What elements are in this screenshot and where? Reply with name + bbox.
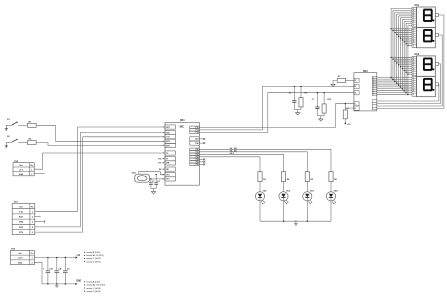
svg-text:TxD: TxD — [19, 211, 23, 213]
svg-text:2: 2 — [32, 217, 33, 219]
wire segment bus d — [377, 14, 412, 84]
svg-text:+12 V: +12 V — [17, 258, 23, 260]
svg-text:g: g — [413, 40, 414, 42]
svg-text:nearby C (HG3): nearby C (HG3) — [86, 287, 101, 290]
LED VD1 — [255, 182, 267, 222]
switch S2 — [6, 136, 21, 143]
DD2 GND pin stub — [345, 108, 354, 110]
wire XS1 pin1 to MCU pin RST — [35, 127, 165, 211]
svg-text:P37: P37 — [158, 163, 161, 165]
svg-text:h: h — [413, 70, 414, 72]
svg-text:nearby D (HG2): nearby D (HG2) — [86, 260, 101, 263]
ground at S1 — [5, 125, 9, 130]
wire P1.2 to DD2 CLK — [199, 93, 354, 133]
svg-text:GND: GND — [345, 108, 350, 110]
svg-text:d: d — [413, 14, 414, 16]
svg-text:RxD: RxD — [19, 217, 24, 219]
svg-text:GND: GND — [19, 222, 24, 224]
svg-text:ST: ST — [354, 80, 356, 82]
wire XS1 pin4 to MCU pin RxD — [35, 133, 165, 227]
wire DIG2 to display B common — [377, 35, 442, 106]
wire P2.3 to LED branch 1 — [199, 157, 260, 172]
wire XS2 pin1 to MCU pin T0 — [34, 153, 165, 169]
capacitor C7 / resistor R10 pull on CLK — [312, 92, 332, 121]
svg-text:DTR: DTR — [19, 227, 24, 229]
capacitor C4 — [52, 257, 62, 285]
svg-text:GND: GND — [19, 174, 24, 176]
switch S1 — [6, 119, 21, 126]
svg-text:b: b — [413, 59, 414, 61]
wire segment bus k — [377, 25, 412, 95]
wire P1.1 to DD2 DIN — [199, 87, 354, 130]
svg-text:CL: CL — [354, 92, 356, 94]
svg-text:Pin: Pin — [31, 253, 34, 255]
svg-text:P26: P26 — [196, 164, 199, 166]
net list +12 — [84, 251, 104, 263]
svg-text:Net: Net — [19, 164, 22, 167]
svg-text:2: 2 — [31, 174, 32, 176]
svg-text:d: d — [413, 83, 414, 85]
svg-text:1: 1 — [163, 127, 164, 129]
svg-text:Pin: Pin — [31, 207, 34, 209]
svg-text:g: g — [413, 68, 414, 70]
wire DIG1 to display A common — [377, 15, 444, 109]
svg-text:nearby A (DD1): nearby A (DD1) — [86, 281, 100, 284]
net list GND — [84, 281, 105, 293]
mcu left pin stub — [159, 168, 165, 171]
IC DD2 display driver — [354, 71, 377, 111]
ground at S2 — [5, 143, 9, 148]
wire segment bus i — [377, 23, 412, 93]
wire segment bus a — [377, 8, 412, 78]
svg-text:T0: T0 — [166, 153, 168, 155]
display HG2 digit C — [412, 56, 438, 76]
resistor R4 — [281, 172, 290, 182]
resistor R8 — [343, 103, 351, 126]
svg-text:Net: Net — [19, 206, 22, 209]
wire segment bus g — [377, 20, 412, 90]
svg-text:2: 2 — [163, 132, 164, 134]
wire segment bus b — [377, 10, 412, 80]
svg-text:5: 5 — [32, 232, 33, 234]
svg-text:T1: T1 — [166, 159, 168, 161]
wire P2.1 to LED branch 3 — [199, 152, 307, 172]
svg-text:Pin: Pin — [30, 165, 33, 167]
wire crystal to XTAL1 — [150, 178, 166, 180]
LED VD2 — [279, 182, 291, 222]
wire XS1 pin3 stub with no-connect — [35, 220, 45, 223]
resistor R5 — [305, 172, 314, 182]
wire XS1 pin2 stub — [35, 216, 41, 218]
svg-text:d: d — [413, 34, 414, 36]
LED VD3 — [303, 182, 315, 222]
svg-text:XT2: XT2 — [166, 175, 169, 177]
port pin stub — [199, 163, 205, 165]
resistor R3 — [258, 172, 267, 182]
node GND flag — [75, 280, 81, 285]
capacitor C6 / resistor R9 pull on DIN — [289, 86, 308, 115]
svg-text:b: b — [413, 79, 414, 81]
port pin stub — [199, 158, 205, 160]
svg-text:nearby A1, B2 (DD2): nearby A1, B2 (DD2) — [86, 284, 105, 287]
wire P1.0 to DD2 LOAD — [199, 104, 354, 128]
wire S2/R2 to MCU pin INT1 — [36, 143, 165, 146]
svg-text:h: h — [413, 42, 414, 44]
IC DD1 microcontroller — [162, 120, 199, 185]
pin ALE stub — [199, 138, 205, 140]
svg-text:3: 3 — [163, 137, 164, 139]
wire +12 rail — [34, 257, 75, 259]
svg-text:1: 1 — [31, 170, 32, 172]
svg-text:DD1: DD1 — [180, 120, 185, 122]
wire DIG4 to display D common — [377, 84, 439, 101]
resistor R6 — [329, 172, 338, 182]
svg-text:1: 1 — [31, 258, 32, 260]
svg-text:Net: Net — [18, 252, 21, 255]
wire GND rail — [34, 262, 75, 284]
connector XS1 — [12, 202, 35, 235]
wire segment bus f — [377, 18, 412, 88]
svg-text:RTS: RTS — [19, 232, 24, 234]
pin PSEN stub — [199, 142, 205, 144]
display HG2 digit D — [412, 76, 438, 96]
resistor R2 — [21, 139, 36, 145]
crystal ZQ1 — [132, 173, 150, 183]
capacitor C3 — [43, 257, 53, 285]
svg-text:nearby A1, B (DD2): nearby A1, B (DD2) — [86, 254, 104, 257]
svg-text:6: 6 — [163, 153, 164, 155]
wire crystal to XTAL2 — [139, 172, 165, 175]
svg-text:nearby C (HG1): nearby C (HG1) — [86, 257, 101, 260]
wire segment bus e — [377, 16, 412, 86]
connector XS3 — [11, 249, 35, 265]
display HG1 digit B — [412, 27, 438, 47]
svg-text:GND: GND — [76, 280, 81, 282]
capacitor C5 — [60, 257, 70, 285]
svg-text:INT0: INT0 — [166, 141, 170, 143]
display HG1 digit A — [412, 7, 438, 27]
wire segment bus c — [377, 12, 412, 82]
svg-text:h: h — [413, 90, 414, 92]
wire S1/R1 to MCU pin INT0 — [36, 125, 165, 141]
svg-text:P36: P36 — [158, 159, 161, 161]
svg-text:nearby A (DD1): nearby A (DD1) — [86, 251, 100, 254]
LED VD4 — [326, 182, 338, 222]
svg-text:INT1: INT1 — [166, 145, 170, 147]
capacitor C2 — [154, 174, 160, 189]
ground at LED rail — [294, 221, 298, 226]
wire P2.0 to LED branch 4 — [199, 149, 331, 171]
resistor R1 — [21, 121, 36, 127]
svg-text:XT1: XT1 — [166, 179, 169, 181]
resistor R7 — [331, 76, 354, 86]
svg-text:d: d — [413, 63, 414, 65]
svg-text:+5 V: +5 V — [19, 169, 24, 171]
ground at crystal — [151, 189, 156, 194]
wire P2.2 to LED branch 2 — [199, 154, 283, 171]
svg-text:g: g — [413, 19, 414, 21]
wire segment bus h — [377, 21, 412, 91]
svg-text:V+: V+ — [354, 103, 356, 105]
svg-text:b: b — [413, 10, 414, 12]
svg-text:2: 2 — [31, 262, 32, 264]
svg-text:P12: P12 — [196, 132, 199, 134]
svg-text:5: 5 — [163, 145, 164, 147]
svg-text:h: h — [413, 21, 414, 23]
svg-text:3: 3 — [32, 222, 33, 224]
capacitor C1 — [149, 178, 155, 188]
port pin stub — [199, 161, 205, 163]
wire DIG3 to display C common — [377, 64, 441, 104]
svg-text:g: g — [413, 89, 414, 91]
mcu left pin stub — [158, 159, 165, 161]
wire LED common rail — [260, 221, 331, 222]
svg-text:nearby D (HG4): nearby D (HG4) — [86, 290, 101, 293]
wire XS2 pin2 stub — [34, 173, 45, 175]
svg-text:b: b — [413, 30, 414, 32]
svg-text:GND: GND — [18, 262, 23, 264]
connector XS2 — [13, 161, 34, 176]
svg-text:1: 1 — [32, 211, 33, 213]
svg-text:HG1: HG1 — [415, 5, 420, 7]
ground at C4 — [55, 284, 59, 287]
node +12 flag — [76, 255, 81, 258]
mcu left pin stub — [158, 163, 165, 165]
wire XS1 pin5 to MCU pin TxD — [35, 137, 165, 232]
